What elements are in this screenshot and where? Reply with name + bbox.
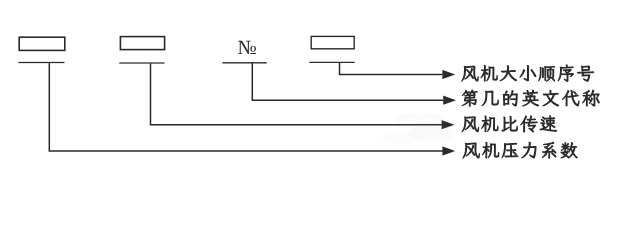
box 3 (size sequence number) [311,36,354,48]
box 2 (specific speed code) [120,37,164,50]
label 第几的英文代称 [462,90,600,107]
wire from No. to english-designation label [252,63,443,100]
label 风机大小顺序号 [461,65,594,82]
label 风机压力系数 [463,142,578,159]
svg-text:№: № [238,37,257,59]
arrowhead row 4 [442,146,455,155]
arrowhead row 1 [442,70,455,79]
arrowhead row 2 [443,96,456,105]
wire from box 1 to pressure-coefficient label [49,63,442,151]
underline under No. [222,62,266,64]
wire from box 3 to size-sequence label [340,63,443,75]
wire from box 2 to specific-speed label [151,64,442,125]
underline under box 2 [119,62,164,64]
underline under box 1 [18,62,64,64]
underline under box 3 [309,61,355,63]
arrowhead row 3 [442,120,455,129]
box 1 (pressure coefficient code) [19,37,65,50]
label 风机比传速 [462,116,557,133]
